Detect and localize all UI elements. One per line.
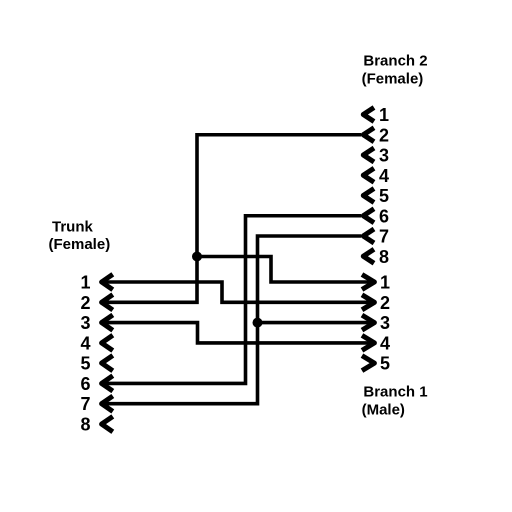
svg-text:(Female): (Female) bbox=[49, 236, 111, 253]
svg-text:(Female): (Female) bbox=[362, 70, 424, 87]
svg-text:8: 8 bbox=[80, 415, 90, 435]
svg-text:4: 4 bbox=[379, 166, 389, 186]
svg-text:Branch 1: Branch 1 bbox=[363, 383, 427, 400]
svg-text:7: 7 bbox=[80, 394, 90, 414]
svg-text:4: 4 bbox=[380, 333, 390, 353]
svg-text:Trunk: Trunk bbox=[52, 219, 93, 236]
svg-text:3: 3 bbox=[380, 313, 390, 333]
svg-text:1: 1 bbox=[380, 273, 390, 293]
svg-text:5: 5 bbox=[380, 354, 390, 374]
svg-text:(Male): (Male) bbox=[362, 401, 405, 418]
svg-text:3: 3 bbox=[80, 313, 90, 333]
svg-text:6: 6 bbox=[80, 374, 90, 394]
svg-text:1: 1 bbox=[80, 273, 90, 293]
svg-text:3: 3 bbox=[379, 146, 389, 166]
svg-text:2: 2 bbox=[80, 293, 90, 313]
svg-text:8: 8 bbox=[379, 247, 389, 267]
svg-text:1: 1 bbox=[379, 105, 389, 125]
svg-text:5: 5 bbox=[379, 186, 389, 206]
svg-text:7: 7 bbox=[379, 227, 389, 247]
svg-text:2: 2 bbox=[380, 293, 390, 313]
svg-text:2: 2 bbox=[379, 125, 389, 145]
svg-text:5: 5 bbox=[80, 354, 90, 374]
svg-text:4: 4 bbox=[80, 333, 90, 353]
svg-text:Branch 2: Branch 2 bbox=[363, 52, 427, 69]
svg-text:6: 6 bbox=[379, 206, 389, 226]
